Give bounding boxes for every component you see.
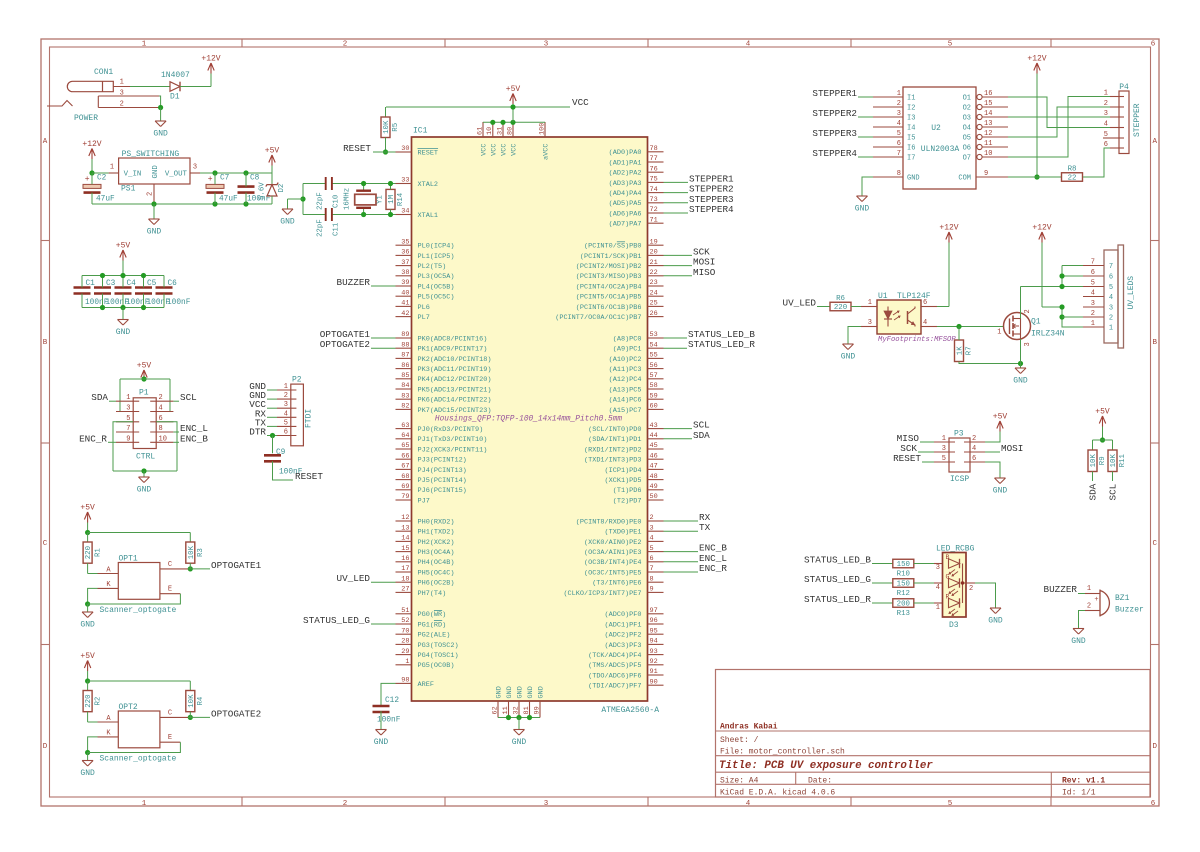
svg-text:7: 7 — [1091, 259, 1095, 267]
svg-text:15: 15 — [401, 545, 409, 553]
svg-text:CON1: CON1 — [94, 68, 113, 77]
svg-text:POWER: POWER — [74, 114, 98, 123]
svg-text:1: 1 — [142, 41, 147, 49]
svg-text:PL5(OC5C): PL5(OC5C) — [418, 294, 455, 302]
svg-text:4: 4 — [1109, 294, 1113, 302]
svg-text:150: 150 — [897, 561, 910, 569]
svg-text:(PCINT2/MOSI)PB2: (PCINT2/MOSI)PB2 — [576, 263, 642, 271]
svg-text:IRLZ34N: IRLZ34N — [1031, 330, 1065, 339]
svg-text:39: 39 — [401, 279, 409, 287]
svg-text:11: 11 — [984, 140, 992, 148]
svg-text:33: 33 — [401, 177, 409, 185]
svg-text:Andras Kabai: Andras Kabai — [720, 723, 778, 732]
svg-text:53: 53 — [650, 331, 658, 339]
svg-text:(AD4)PA4: (AD4)PA4 — [609, 190, 642, 198]
svg-text:65: 65 — [401, 442, 409, 450]
svg-text:C: C — [1152, 540, 1157, 548]
svg-text:2: 2 — [1087, 603, 1091, 611]
svg-text:(XCK0/AIN0)PE2: (XCK0/AIN0)PE2 — [584, 539, 642, 547]
svg-text:7: 7 — [897, 150, 901, 158]
svg-text:44: 44 — [650, 432, 658, 440]
svg-text:3: 3 — [126, 405, 130, 413]
svg-text:+5V: +5V — [265, 147, 280, 156]
svg-text:U1: U1 — [878, 292, 888, 301]
svg-text:+12V: +12V — [1027, 55, 1046, 64]
svg-text:PJ6(PCINT15): PJ6(PCINT15) — [418, 487, 467, 495]
svg-text:10K: 10K — [188, 694, 196, 708]
svg-text:2: 2 — [972, 435, 976, 443]
svg-text:PL4(OC5B): PL4(OC5B) — [418, 283, 455, 291]
svg-text:RESET: RESET — [343, 143, 371, 154]
svg-text:D3: D3 — [949, 621, 959, 630]
svg-text:(T1)PD6: (T1)PD6 — [613, 487, 642, 495]
svg-text:PG0(WR): PG0(WR) — [418, 611, 447, 619]
svg-text:27: 27 — [401, 586, 409, 594]
svg-text:60: 60 — [650, 403, 658, 411]
svg-text:(TDI/ADC7)PF7: (TDI/ADC7)PF7 — [588, 683, 641, 691]
svg-text:STATUS_LED_R: STATUS_LED_R — [804, 594, 871, 605]
svg-text:63: 63 — [401, 422, 409, 430]
svg-text:7: 7 — [126, 425, 130, 433]
svg-text:GND: GND — [988, 617, 1003, 626]
svg-text:38: 38 — [401, 269, 409, 277]
svg-text:4: 4 — [746, 800, 751, 808]
svg-text:R7: R7 — [966, 346, 974, 355]
svg-text:MyFootprints:MFSOP: MyFootprints:MFSOP — [878, 336, 956, 344]
svg-text:220: 220 — [85, 694, 93, 707]
svg-text:93: 93 — [650, 648, 658, 656]
svg-text:6: 6 — [923, 299, 927, 307]
svg-text:PH4(OC4B): PH4(OC4B) — [418, 559, 455, 567]
svg-text:(OC3A/AIN1)PE3: (OC3A/AIN1)PE3 — [584, 549, 642, 557]
svg-text:ICSP: ICSP — [950, 475, 969, 484]
svg-text:68: 68 — [401, 473, 409, 481]
svg-text:+5V: +5V — [993, 413, 1008, 422]
svg-text:OPTOGATE2: OPTOGATE2 — [320, 339, 370, 350]
svg-text:1: 1 — [405, 658, 409, 666]
svg-text:64: 64 — [401, 432, 409, 440]
svg-text:C12: C12 — [385, 697, 399, 705]
svg-text:DTR: DTR — [249, 427, 266, 438]
svg-text:O4: O4 — [963, 125, 971, 133]
svg-text:2: 2 — [1091, 310, 1095, 318]
svg-text:+5V: +5V — [116, 242, 131, 251]
svg-text:96: 96 — [650, 617, 658, 625]
svg-text:I2: I2 — [907, 105, 915, 113]
svg-text:PK3(ADC11/PCINT19): PK3(ADC11/PCINT19) — [418, 366, 492, 374]
svg-text:STEPPER2: STEPPER2 — [812, 108, 857, 119]
svg-text:G: G — [946, 574, 950, 581]
svg-text:GND: GND — [280, 218, 295, 227]
svg-text:I7: I7 — [907, 155, 915, 163]
svg-text:UV_LED: UV_LED — [337, 573, 371, 584]
svg-text:11: 11 — [502, 706, 510, 714]
svg-text:GND: GND — [1013, 377, 1028, 386]
svg-text:SDA: SDA — [1088, 483, 1099, 500]
svg-text:PK7(ADC15/PCINT23): PK7(ADC15/PCINT23) — [418, 407, 492, 415]
svg-text:75: 75 — [650, 176, 658, 184]
svg-text:40: 40 — [401, 289, 409, 297]
svg-text:76: 76 — [650, 165, 658, 173]
svg-text:I6: I6 — [907, 145, 915, 153]
svg-text:8: 8 — [897, 170, 901, 178]
svg-text:PL2(T5): PL2(T5) — [418, 263, 447, 271]
svg-text:KiCad E.D.A. kicad 4.0.6: KiCad E.D.A. kicad 4.0.6 — [720, 788, 835, 797]
svg-text:GND: GND — [496, 686, 504, 698]
svg-text:30: 30 — [401, 145, 409, 153]
svg-text:CTRL: CTRL — [136, 453, 155, 462]
svg-text:Scanner_optogate: Scanner_optogate — [100, 755, 177, 764]
svg-text:5: 5 — [1091, 280, 1095, 288]
svg-text:R2: R2 — [94, 697, 102, 706]
svg-text:(SDA/INT1)PD1: (SDA/INT1)PD1 — [588, 436, 641, 444]
svg-text:PK1(ADC9/PCINT17): PK1(ADC9/PCINT17) — [418, 346, 488, 354]
svg-text:(AD5)PA5: (AD5)PA5 — [609, 200, 642, 208]
svg-text:5: 5 — [948, 41, 953, 49]
svg-text:PH1(TXD2): PH1(TXD2) — [418, 529, 455, 537]
svg-text:2: 2 — [159, 394, 163, 402]
svg-text:5: 5 — [650, 545, 654, 553]
svg-text:C9: C9 — [276, 449, 286, 457]
svg-text:2: 2 — [1109, 315, 1113, 323]
svg-text:4: 4 — [650, 535, 654, 543]
svg-text:XTAL1: XTAL1 — [418, 212, 439, 220]
svg-text:PJ0(RxD3/PCINT9): PJ0(RxD3/PCINT9) — [418, 426, 484, 434]
svg-text:GND: GND — [907, 175, 920, 183]
svg-text:73: 73 — [650, 196, 658, 204]
svg-text:GND: GND — [137, 486, 152, 495]
svg-text:89: 89 — [401, 331, 409, 339]
svg-text:42: 42 — [401, 310, 409, 318]
svg-text:62: 62 — [491, 706, 499, 714]
svg-text:R8: R8 — [1068, 165, 1077, 173]
svg-text:SCL: SCL — [180, 392, 197, 403]
svg-text:97: 97 — [650, 607, 658, 615]
svg-text:100nF: 100nF — [167, 299, 191, 307]
svg-text:82: 82 — [401, 403, 409, 411]
svg-text:43: 43 — [650, 422, 658, 430]
svg-text:PL1(ICP5): PL1(ICP5) — [418, 253, 455, 261]
svg-text:(PCINT6/OC1B)PB6: (PCINT6/OC1B)PB6 — [576, 304, 642, 312]
svg-text:(PCINT3/MISO)PB3: (PCINT3/MISO)PB3 — [576, 273, 642, 281]
svg-text:22pF: 22pF — [317, 192, 325, 210]
svg-text:14: 14 — [401, 535, 409, 543]
svg-text:C4: C4 — [127, 280, 137, 288]
svg-text:(ADC0)PF0: (ADC0)PF0 — [605, 611, 642, 619]
svg-text:3: 3 — [936, 564, 940, 572]
svg-text:+5V: +5V — [80, 652, 95, 661]
svg-text:C7: C7 — [220, 175, 230, 183]
svg-text:+12V: +12V — [1032, 224, 1051, 233]
svg-text:GND: GND — [374, 738, 389, 747]
svg-text:PK0(ADC8/PCINT16): PK0(ADC8/PCINT16) — [418, 335, 488, 343]
svg-text:16: 16 — [401, 555, 409, 563]
svg-text:22: 22 — [650, 269, 658, 277]
svg-text:6: 6 — [1104, 141, 1108, 149]
svg-text:10: 10 — [984, 150, 992, 158]
svg-text:(PCINT7/OC0A/OC1C)PB7: (PCINT7/OC0A/OC1C)PB7 — [555, 314, 641, 322]
svg-text:STEPPER3: STEPPER3 — [812, 128, 857, 139]
svg-text:(PCINT4/OC2A)PB4: (PCINT4/OC2A)PB4 — [576, 283, 642, 291]
svg-text:Size: A4: Size: A4 — [720, 776, 759, 785]
svg-text:R10: R10 — [897, 570, 910, 578]
svg-text:STATUS_LED_R: STATUS_LED_R — [688, 339, 755, 350]
svg-text:PJ4(PCINT13): PJ4(PCINT13) — [418, 467, 467, 475]
svg-text:19: 19 — [650, 238, 658, 246]
svg-text:6: 6 — [650, 555, 654, 563]
svg-text:2: 2 — [284, 392, 288, 400]
svg-text:5: 5 — [897, 130, 901, 138]
svg-text:STEPPER1: STEPPER1 — [812, 88, 857, 99]
svg-text:ENC_R: ENC_R — [79, 433, 107, 444]
svg-text:85: 85 — [401, 372, 409, 380]
svg-text:(CLKO/ICP3/INT7)PE7: (CLKO/ICP3/INT7)PE7 — [563, 590, 641, 598]
svg-text:57: 57 — [650, 372, 658, 380]
svg-text:90: 90 — [650, 678, 658, 686]
svg-text:48: 48 — [650, 473, 658, 481]
svg-text:R12: R12 — [897, 590, 910, 598]
svg-text:STATUS_LED_B: STATUS_LED_B — [804, 555, 871, 566]
svg-text:R14: R14 — [397, 192, 405, 206]
svg-text:PK4(ADC12/PCINT20): PK4(ADC12/PCINT20) — [418, 376, 492, 384]
svg-text:(ADC3)PF3: (ADC3)PF3 — [605, 642, 642, 650]
svg-text:ULN2003A: ULN2003A — [921, 145, 960, 154]
svg-text:R3: R3 — [197, 548, 205, 557]
svg-text:(SCL/INT0)PD0: (SCL/INT0)PD0 — [588, 426, 641, 434]
svg-text:24: 24 — [650, 289, 658, 297]
svg-text:D: D — [1152, 743, 1157, 751]
svg-text:3: 3 — [1024, 342, 1032, 346]
svg-text:9: 9 — [126, 435, 130, 443]
svg-text:PK5(ADC13/PCINT21): PK5(ADC13/PCINT21) — [418, 386, 492, 394]
svg-text:+: + — [208, 175, 213, 184]
svg-text:3: 3 — [284, 401, 288, 409]
svg-text:OPTOGATE1: OPTOGATE1 — [211, 560, 262, 571]
svg-text:4: 4 — [897, 120, 901, 128]
svg-text:1: 1 — [1087, 585, 1091, 593]
svg-text:(A8)PC0: (A8)PC0 — [613, 335, 642, 343]
svg-text:SCL: SCL — [1108, 484, 1119, 501]
svg-text:(TMS/ADC5)PF5: (TMS/ADC5)PF5 — [588, 662, 641, 670]
svg-text:aVCC: aVCC — [543, 144, 551, 160]
svg-text:(T3/INT6)PE6: (T3/INT6)PE6 — [592, 580, 641, 588]
svg-text:PJ5(PCINT14): PJ5(PCINT14) — [418, 477, 467, 485]
svg-text:86: 86 — [401, 362, 409, 370]
svg-text:GND: GND — [147, 228, 162, 237]
svg-text:(TXD0)PE1: (TXD0)PE1 — [605, 529, 642, 537]
svg-text:I5: I5 — [907, 135, 915, 143]
svg-text:V_IN: V_IN — [124, 171, 142, 179]
svg-text:MISO: MISO — [693, 267, 716, 278]
svg-text:5.6V: 5.6V — [259, 182, 267, 200]
svg-text:GND: GND — [841, 353, 856, 362]
svg-text:71: 71 — [650, 216, 658, 224]
svg-text:PG3(TOSC2): PG3(TOSC2) — [418, 642, 459, 650]
svg-text:(A15)PC7: (A15)PC7 — [609, 407, 642, 415]
svg-text:B: B — [1152, 339, 1157, 347]
svg-text:6: 6 — [897, 140, 901, 148]
svg-text:RESET: RESET — [418, 149, 439, 157]
svg-text:GND: GND — [80, 621, 95, 630]
svg-text:6: 6 — [1151, 800, 1156, 808]
svg-text:I4: I4 — [907, 125, 915, 133]
svg-text:1: 1 — [284, 383, 288, 391]
svg-text:+: + — [85, 175, 90, 184]
svg-text:98: 98 — [401, 677, 409, 685]
svg-text:1N4007: 1N4007 — [161, 71, 190, 80]
svg-text:51: 51 — [401, 607, 409, 615]
svg-text:4: 4 — [923, 319, 927, 327]
svg-text:4: 4 — [1091, 290, 1095, 298]
svg-text:GND: GND — [517, 686, 525, 698]
svg-text:V_OUT: V_OUT — [165, 171, 188, 179]
svg-text:84: 84 — [401, 382, 409, 390]
svg-text:PK6(ADC14/PCINT22): PK6(ADC14/PCINT22) — [418, 397, 492, 405]
svg-text:10K: 10K — [1110, 454, 1118, 468]
svg-text:VCC: VCC — [511, 144, 519, 156]
svg-text:49: 49 — [650, 483, 658, 491]
svg-text:GND: GND — [1071, 637, 1086, 646]
svg-text:25: 25 — [650, 300, 658, 308]
svg-text:PH2(XCK2): PH2(XCK2) — [418, 539, 455, 547]
svg-text:17: 17 — [401, 565, 409, 573]
svg-text:1: 1 — [120, 78, 124, 86]
svg-text:47uF: 47uF — [219, 196, 238, 204]
svg-text:10: 10 — [486, 127, 494, 135]
svg-text:26: 26 — [650, 310, 658, 318]
svg-text:3: 3 — [650, 524, 654, 532]
svg-text:1: 1 — [897, 90, 901, 98]
svg-text:C2: C2 — [97, 175, 107, 183]
svg-text:OPT2: OPT2 — [119, 703, 138, 712]
svg-text:3: 3 — [544, 41, 549, 49]
svg-text:+5V: +5V — [137, 362, 152, 371]
svg-text:37: 37 — [401, 259, 409, 267]
svg-text:9: 9 — [650, 586, 654, 594]
svg-text:R11: R11 — [1119, 454, 1127, 468]
svg-text:94: 94 — [650, 638, 658, 646]
svg-text:4: 4 — [284, 410, 288, 418]
svg-text:91: 91 — [650, 668, 658, 676]
svg-text:56: 56 — [650, 362, 658, 370]
svg-text:5: 5 — [948, 800, 953, 808]
svg-text:(A9)PC1: (A9)PC1 — [613, 346, 642, 354]
svg-text:COM: COM — [958, 175, 971, 183]
svg-text:File: motor_controller.sch: File: motor_controller.sch — [720, 748, 845, 757]
svg-text:MOSI: MOSI — [1001, 443, 1023, 454]
svg-text:3: 3 — [1109, 305, 1113, 313]
svg-text:6: 6 — [1109, 274, 1113, 282]
svg-text:PJ1(TxD3/PCINT10): PJ1(TxD3/PCINT10) — [418, 436, 488, 444]
svg-text:88: 88 — [401, 341, 409, 349]
svg-text:(A11)PC3: (A11)PC3 — [609, 366, 642, 374]
svg-text:R5: R5 — [392, 123, 400, 132]
svg-text:1: 1 — [997, 329, 1001, 337]
svg-text:O2: O2 — [963, 105, 971, 113]
svg-text:RESET: RESET — [893, 453, 921, 464]
svg-text:45: 45 — [650, 442, 658, 450]
svg-text:ENC_B: ENC_B — [180, 433, 208, 444]
svg-text:2: 2 — [147, 192, 155, 196]
svg-text:2: 2 — [650, 514, 654, 522]
svg-text:PH7(T4): PH7(T4) — [418, 590, 447, 598]
svg-text:12: 12 — [984, 130, 992, 138]
svg-text:STATUS_LED_G: STATUS_LED_G — [303, 615, 370, 626]
svg-text:41: 41 — [401, 300, 409, 308]
svg-text:+5V: +5V — [1095, 408, 1110, 417]
svg-text:Scanner_optogate: Scanner_optogate — [100, 606, 177, 615]
svg-text:GND: GND — [80, 769, 95, 778]
svg-text:GND: GND — [855, 205, 870, 214]
svg-text:(TXD1/INT3)PD3: (TXD1/INT3)PD3 — [584, 457, 642, 465]
svg-text:1M: 1M — [388, 195, 396, 204]
svg-text:80: 80 — [506, 127, 514, 135]
svg-text:3: 3 — [897, 110, 901, 118]
svg-text:C3: C3 — [106, 280, 116, 288]
svg-text:OPTOGATE2: OPTOGATE2 — [211, 708, 261, 719]
svg-text:22: 22 — [1068, 175, 1077, 183]
svg-text:31: 31 — [496, 127, 504, 135]
svg-text:13: 13 — [984, 120, 992, 128]
svg-text:2: 2 — [969, 585, 973, 593]
svg-text:R4: R4 — [197, 696, 205, 705]
svg-text:UV_LED: UV_LED — [783, 298, 817, 309]
svg-text:61: 61 — [476, 127, 484, 135]
svg-text:IC1: IC1 — [413, 127, 428, 136]
svg-text:10: 10 — [159, 435, 167, 443]
svg-text:(TCK/ADC4)PF4: (TCK/ADC4)PF4 — [588, 652, 641, 660]
svg-text:(OC3C/INT5)PE5: (OC3C/INT5)PE5 — [584, 569, 642, 577]
svg-text:C1: C1 — [86, 280, 96, 288]
svg-text:D1: D1 — [170, 93, 180, 102]
svg-text:VCC: VCC — [491, 144, 499, 156]
svg-text:220: 220 — [85, 546, 93, 559]
svg-text:PS_SWITCHING: PS_SWITCHING — [122, 150, 180, 159]
svg-text:I1: I1 — [907, 95, 915, 103]
svg-text:(PCINT8/RXD0)PE0: (PCINT8/RXD0)PE0 — [576, 518, 642, 526]
svg-text:STATUS_LED_G: STATUS_LED_G — [804, 574, 871, 585]
svg-text:XTAL2: XTAL2 — [418, 181, 439, 189]
svg-text:21: 21 — [650, 259, 658, 267]
svg-text:O7: O7 — [963, 155, 971, 163]
svg-text:PG5(OC0B): PG5(OC0B) — [418, 662, 455, 670]
svg-text:29: 29 — [401, 648, 409, 656]
svg-text:Sheet: /: Sheet: / — [720, 736, 759, 745]
svg-text:STEPPER4: STEPPER4 — [689, 204, 734, 215]
svg-text:15: 15 — [984, 100, 992, 108]
svg-text:18: 18 — [401, 575, 409, 583]
svg-text:UV_LEDS: UV_LEDS — [1127, 276, 1136, 310]
svg-text:PH3(OC4A): PH3(OC4A) — [418, 549, 455, 557]
svg-text:2: 2 — [1024, 309, 1032, 313]
svg-text:1: 1 — [126, 394, 130, 402]
svg-text:GND: GND — [153, 130, 168, 139]
svg-text:16: 16 — [984, 90, 992, 98]
svg-text:2: 2 — [343, 41, 348, 49]
svg-text:34: 34 — [401, 208, 409, 216]
svg-text:6: 6 — [1151, 41, 1156, 49]
svg-text:P4: P4 — [1119, 83, 1129, 92]
svg-text:TX: TX — [699, 522, 711, 533]
svg-text:A: A — [43, 138, 48, 146]
svg-text:GND: GND — [538, 686, 546, 698]
svg-text:(T2)PD7: (T2)PD7 — [613, 497, 642, 505]
svg-text:GND: GND — [512, 738, 527, 747]
svg-text:95: 95 — [650, 627, 658, 635]
svg-text:1K: 1K — [957, 346, 965, 355]
svg-text:PJ3(PCINT12): PJ3(PCINT12) — [418, 457, 467, 465]
svg-text:6: 6 — [284, 429, 288, 437]
